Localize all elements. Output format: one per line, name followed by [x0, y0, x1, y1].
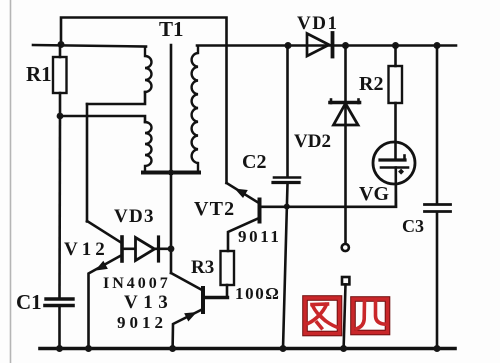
- transformer T1 secondary winding: [192, 47, 198, 171]
- wire A upper winding bottom to V12 collector: [87, 92, 145, 104]
- resistor R2: [389, 66, 403, 103]
- svg-text:R3: R3: [191, 257, 214, 278]
- node D VD1 anode junction: [285, 42, 292, 49]
- transformer T1 primary upper winding: [145, 47, 152, 92]
- svg-text:VD1: VD1: [297, 13, 338, 34]
- svg-text:T1: T1: [159, 17, 184, 41]
- diode VD3: [122, 248, 135, 251]
- switch contact circle: [342, 244, 349, 251]
- node A junction R1 top: [58, 41, 65, 48]
- node L: [169, 345, 176, 352]
- scan border artifact line: [10, 0, 12, 363]
- switch contact square: [342, 277, 349, 284]
- wire switch to bottom: [344, 285, 346, 349]
- node I VD3 cathode junction: [168, 245, 175, 252]
- wire center tap down: [170, 173, 173, 273]
- svg-text:VT2: VT2: [194, 198, 235, 220]
- svg-text:VD2: VD2: [294, 131, 331, 152]
- capacitor C2: [286, 46, 289, 178]
- node B junction R1 bottom: [57, 113, 64, 120]
- node H C2/base junction: [284, 204, 290, 210]
- wire bottom rail: [40, 347, 455, 351]
- node E VD2 top junction: [342, 42, 349, 49]
- transformer T1 primary lower winding: [145, 122, 152, 171]
- node O: [434, 345, 441, 352]
- transformer T1 core line: [170, 45, 173, 173]
- svg-text:IN4007: IN4007: [103, 275, 171, 292]
- wire input left: [33, 45, 146, 47]
- svg-text:V13: V13: [124, 292, 173, 313]
- diode VD2 zener: [330, 101, 360, 105]
- node J: [56, 345, 63, 352]
- wire VT2 base to VG: [260, 184, 396, 207]
- svg-text:C3: C3: [402, 216, 424, 236]
- transistor V13: [201, 288, 205, 312]
- wire top bypass: [61, 18, 227, 184]
- figure caption red char TU: [305, 298, 340, 334]
- tube VG: [373, 142, 415, 184]
- resistor R3: [221, 251, 235, 285]
- transistor V12: [120, 237, 124, 261]
- svg-text:VG: VG: [359, 183, 389, 205]
- wire C1 branch: [58, 116, 61, 297]
- wire VD2 vertical: [344, 46, 347, 244]
- svg-text:100Ω: 100Ω: [235, 284, 281, 303]
- svg-text:C1: C1: [16, 290, 42, 314]
- node N: [340, 345, 347, 352]
- transformer bottom bar: [143, 171, 199, 175]
- resistor R1: [53, 57, 67, 93]
- capacitor C3: [436, 46, 439, 205]
- svg-text:9012: 9012: [117, 313, 167, 332]
- node G C3 top junction: [434, 42, 441, 49]
- transistor VT2: [258, 200, 262, 222]
- svg-text:C2: C2: [242, 151, 266, 173]
- wire B to lower primary winding: [60, 116, 145, 122]
- node K: [85, 345, 92, 352]
- svg-text:V12: V12: [64, 239, 109, 260]
- svg-text:VD3: VD3: [114, 206, 155, 227]
- wire R3 to V13 base: [204, 296, 228, 299]
- node C center tap junction: [168, 170, 174, 176]
- wire secondary top to VD1: [197, 44, 456, 47]
- figure caption red char SI: [353, 299, 388, 333]
- svg-text:R2: R2: [359, 73, 383, 95]
- svg-text:9011: 9011: [238, 227, 281, 246]
- node M: [280, 345, 287, 352]
- diode VD1: [307, 34, 329, 57]
- svg-text:R1: R1: [26, 62, 52, 86]
- capacitor C1: [46, 297, 73, 300]
- node F R2 top junction: [392, 42, 399, 49]
- wire R1 leads: [59, 45, 62, 57]
